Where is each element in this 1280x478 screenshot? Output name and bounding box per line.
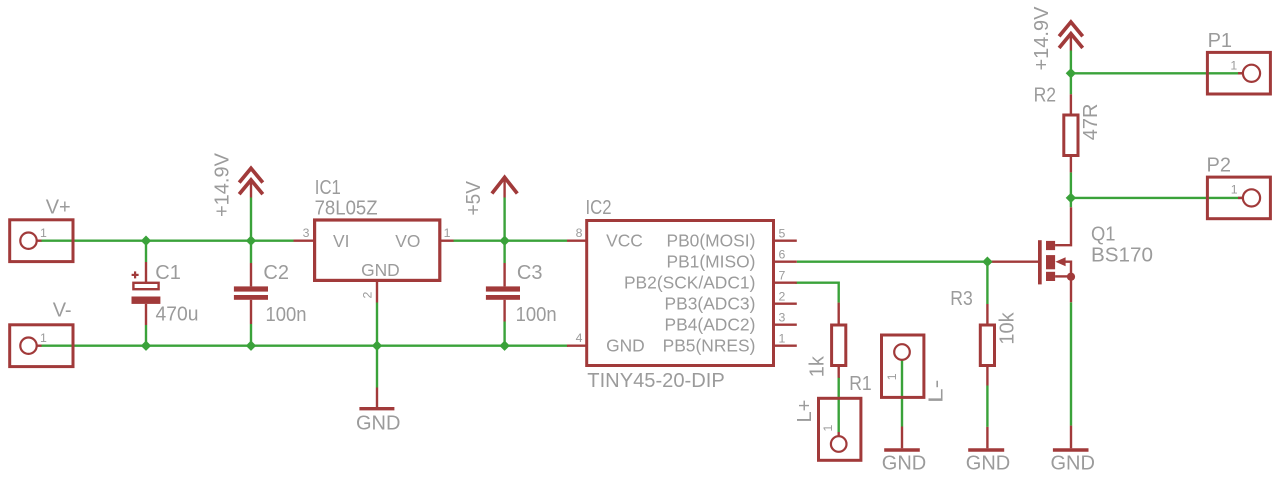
- svg-text:R3: R3: [950, 288, 973, 310]
- svg-text:V+: V+: [46, 197, 71, 219]
- svg-text:100n: 100n: [516, 304, 557, 326]
- svg-text:L+: L+: [794, 400, 816, 423]
- svg-text:3: 3: [779, 311, 786, 325]
- svg-text:7: 7: [779, 269, 786, 283]
- svg-text:GND: GND: [882, 453, 926, 475]
- svg-text:4: 4: [576, 331, 583, 345]
- svg-text:PB1(MISO): PB1(MISO): [666, 252, 755, 272]
- svg-text:+14.9V: +14.9V: [1031, 6, 1053, 71]
- svg-text:PB3(ADC3): PB3(ADC3): [665, 294, 756, 314]
- svg-text:1: 1: [885, 373, 899, 380]
- svg-text:PB0(MOSI): PB0(MOSI): [666, 231, 755, 251]
- svg-text:VCC: VCC: [606, 231, 643, 251]
- svg-text:3: 3: [303, 226, 310, 240]
- svg-text:1: 1: [779, 332, 786, 346]
- svg-text:P2: P2: [1207, 155, 1231, 177]
- svg-text:BS170: BS170: [1091, 244, 1153, 266]
- svg-text:100n: 100n: [266, 304, 307, 326]
- svg-text:1: 1: [1231, 183, 1238, 197]
- svg-text:IC2: IC2: [586, 197, 612, 219]
- svg-text:10k: 10k: [997, 311, 1019, 344]
- svg-text:GND: GND: [1050, 453, 1094, 475]
- svg-text:Q1: Q1: [1091, 224, 1116, 246]
- svg-text:5: 5: [779, 227, 786, 241]
- svg-text:PB4(ADC2): PB4(ADC2): [665, 315, 756, 335]
- svg-text:47R: 47R: [1080, 104, 1102, 141]
- svg-text:C3: C3: [517, 262, 543, 284]
- svg-text:78L05Z: 78L05Z: [315, 198, 378, 220]
- svg-text:VI: VI: [333, 231, 349, 251]
- svg-text:1: 1: [1230, 59, 1237, 73]
- svg-text:C2: C2: [263, 262, 289, 284]
- svg-text:1: 1: [821, 425, 835, 432]
- svg-text:GND: GND: [966, 453, 1010, 475]
- svg-text:1: 1: [444, 226, 451, 240]
- svg-text:2: 2: [779, 290, 786, 304]
- svg-text:GND: GND: [356, 412, 400, 434]
- svg-text:1: 1: [40, 331, 47, 345]
- svg-text:C1: C1: [155, 262, 181, 284]
- svg-text:R1: R1: [849, 373, 872, 395]
- svg-text:8: 8: [576, 226, 583, 240]
- svg-text:GND: GND: [606, 336, 645, 356]
- svg-text:PB2(SCK/ADC1): PB2(SCK/ADC1): [624, 273, 755, 293]
- svg-text:1k: 1k: [807, 355, 829, 377]
- svg-text:6: 6: [779, 248, 786, 262]
- svg-text:1: 1: [40, 226, 47, 240]
- svg-text:P1: P1: [1208, 30, 1232, 52]
- svg-text:GND: GND: [361, 260, 400, 280]
- svg-text:L-: L-: [926, 380, 948, 404]
- svg-text:TINY45-20-DIP: TINY45-20-DIP: [587, 370, 725, 392]
- svg-text:IC1: IC1: [315, 177, 341, 199]
- svg-text:+5V: +5V: [463, 180, 485, 215]
- svg-text:PB5(NRES): PB5(NRES): [663, 336, 756, 356]
- svg-text:VO: VO: [395, 231, 420, 251]
- svg-text:R2: R2: [1034, 84, 1057, 106]
- svg-text:2: 2: [361, 292, 375, 299]
- svg-text:470u: 470u: [156, 303, 199, 325]
- svg-text:+14.9V: +14.9V: [211, 152, 233, 217]
- svg-text:V-: V-: [53, 300, 72, 322]
